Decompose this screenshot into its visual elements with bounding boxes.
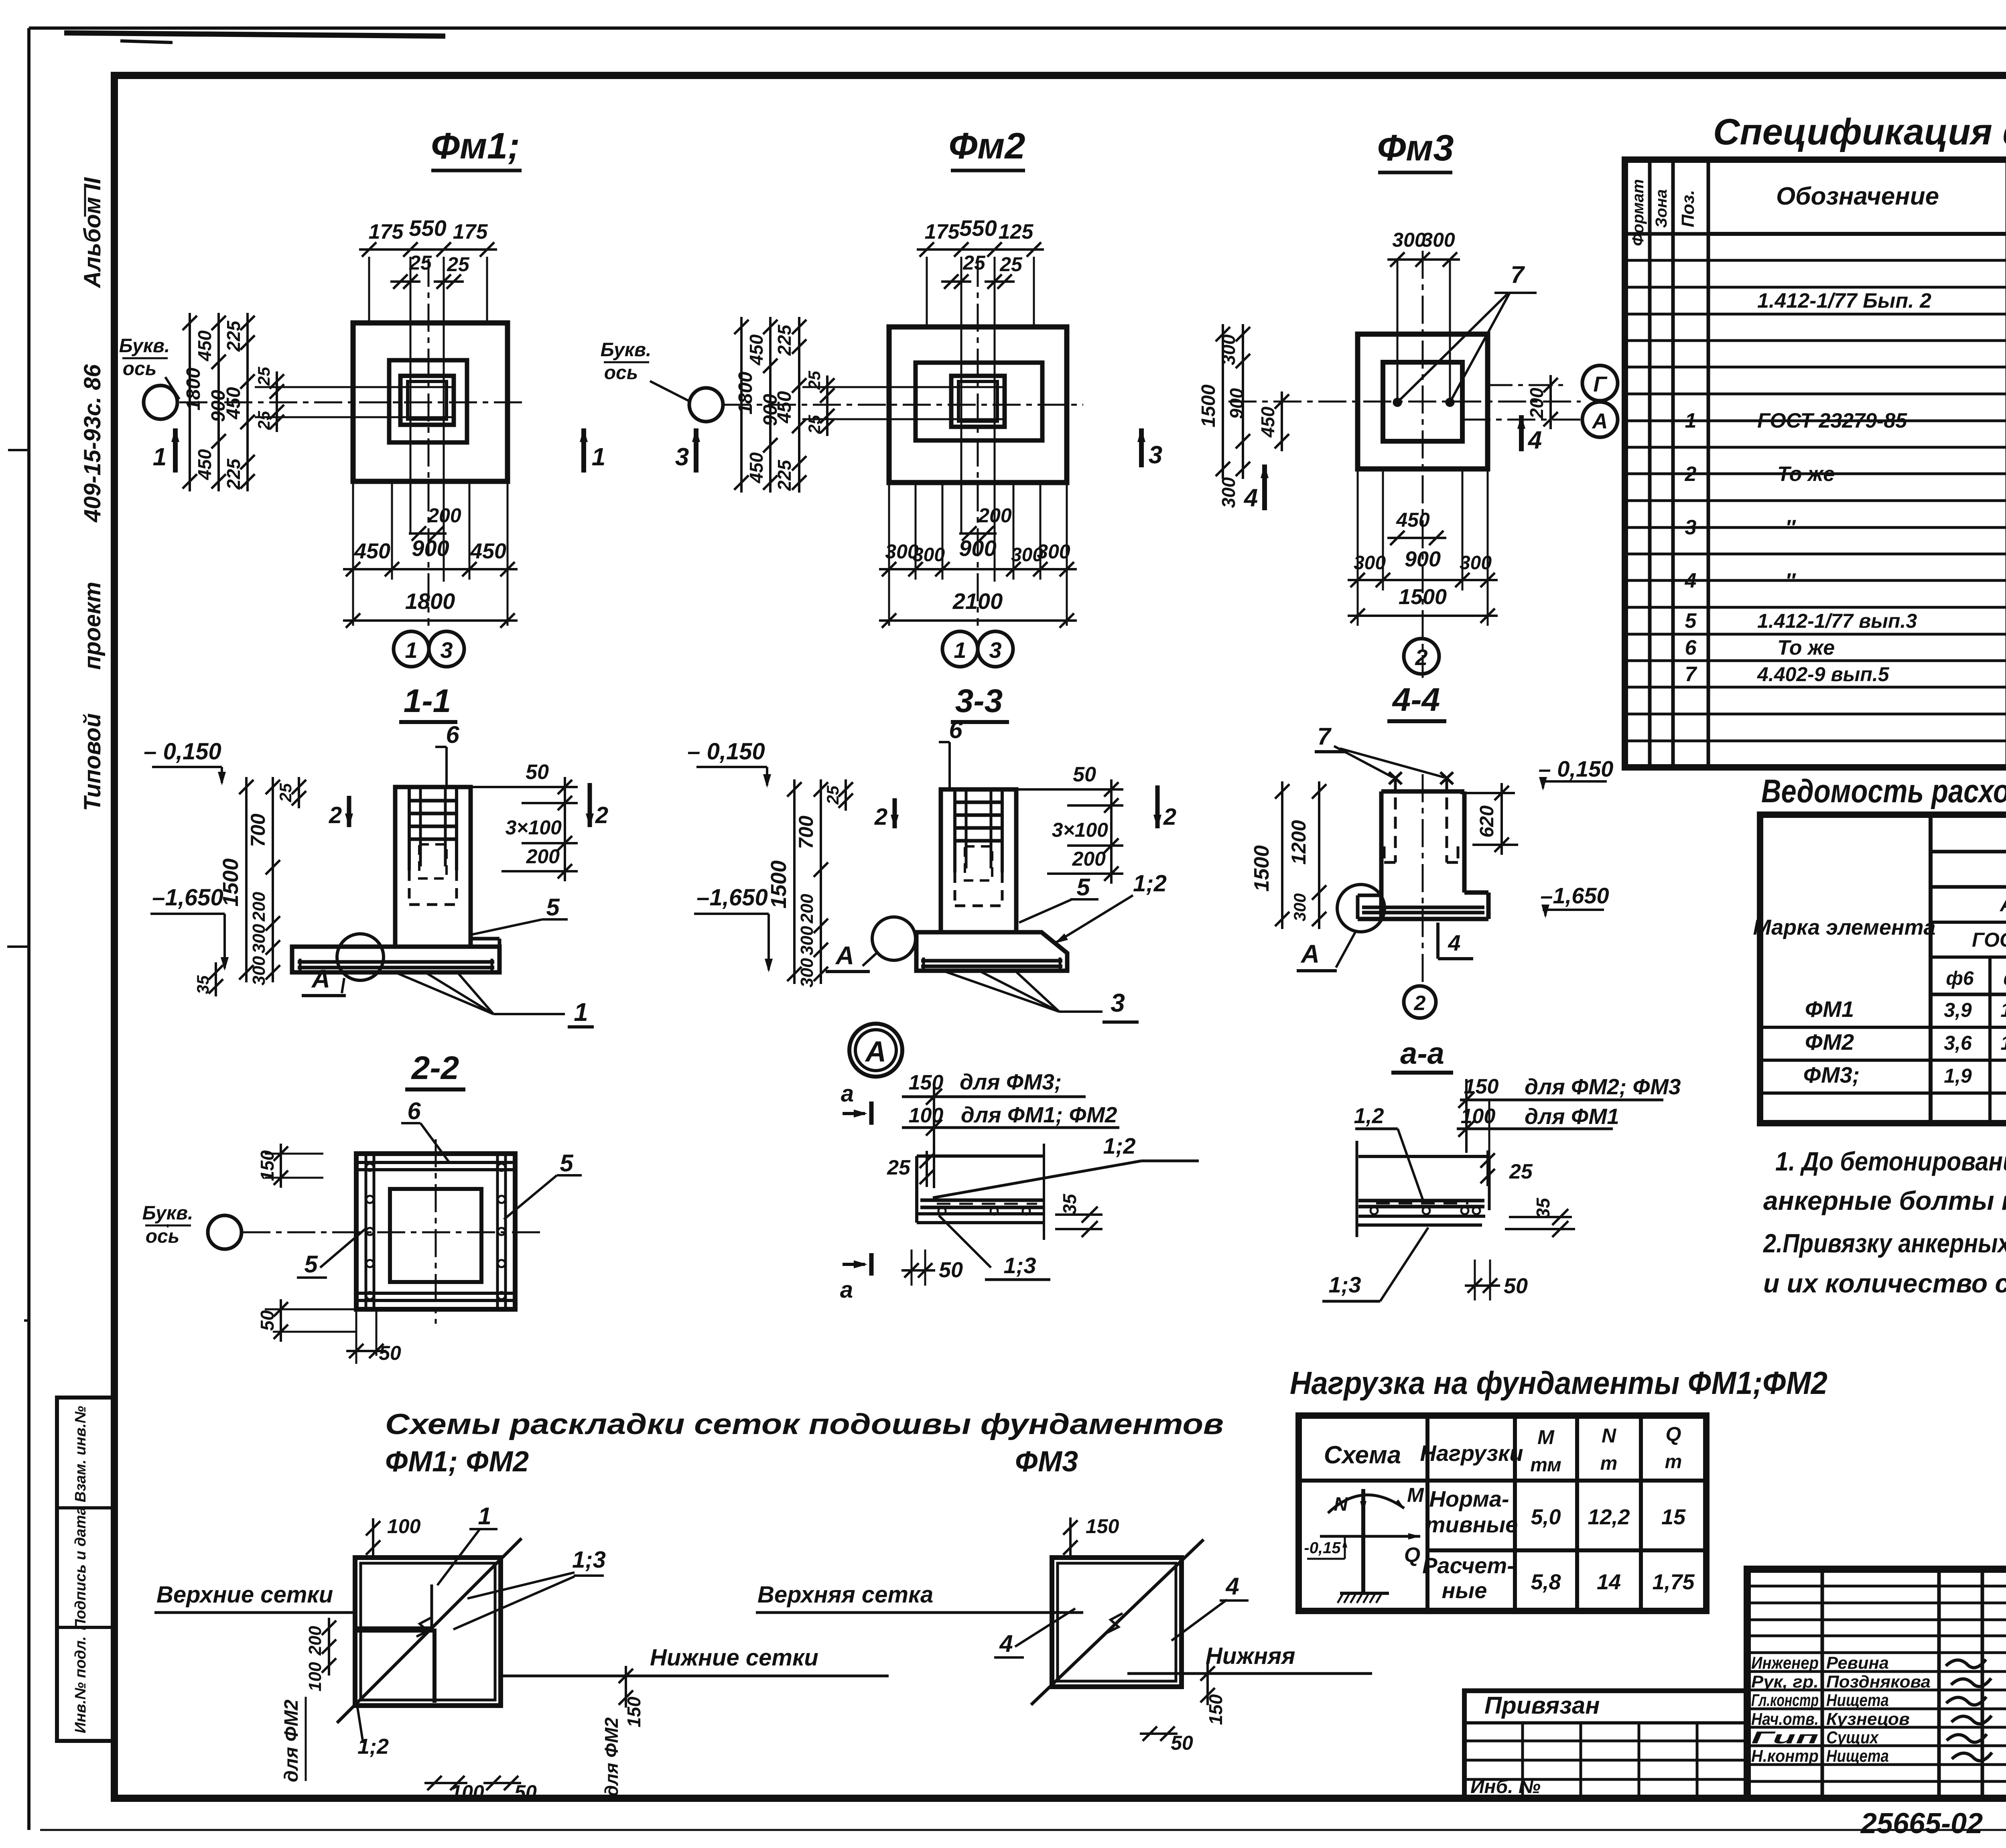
mesh scheme FM1-FM2 dim 100 top	[372, 1518, 374, 1558]
svg-text:1,2: 1,2	[1354, 1104, 1384, 1128]
svg-text:300: 300	[913, 544, 945, 566]
svg-text:150: 150	[909, 1071, 944, 1094]
svg-text:Сущих: Сущих	[1826, 1728, 1879, 1747]
plan FM3 left dim chain 1500	[1222, 324, 1224, 479]
svg-text:150: 150	[1086, 1515, 1119, 1538]
plan FM3 anchor bolts	[1394, 399, 1401, 406]
mesh scheme FM1-FM2 diagonal break line	[337, 1538, 522, 1723]
section 3-3 glass walls	[953, 789, 956, 872]
svg-text:15,1: 15,1	[2000, 1032, 2006, 1054]
plan FM2 bottom dim 200	[959, 532, 997, 535]
svg-text:450: 450	[746, 334, 767, 365]
plan FM2 top dims 25 25	[941, 280, 971, 283]
svg-text:25: 25	[999, 253, 1023, 276]
svg-text:Фм1;: Фм1;	[431, 126, 520, 166]
svg-text:200: 200	[427, 504, 461, 527]
load table column lines	[1425, 1416, 1429, 1611]
svg-text:для ФМ3;: для ФМ3;	[960, 1069, 1062, 1094]
specification table row lines	[1625, 259, 2006, 262]
plan FM2 section mark 1	[581, 428, 586, 473]
svg-text:300: 300	[1037, 540, 1070, 563]
section 3-3 right dims 50 3x100 200	[1018, 788, 1123, 791]
svg-text:Подпись и дата: Подпись и дата	[72, 1507, 89, 1630]
svg-text:25: 25	[254, 367, 273, 386]
svg-text:Зона: Зона	[1653, 189, 1670, 228]
plan FM2 bottom overall dim 2100	[879, 619, 1077, 622]
load table row lines	[1427, 1479, 1706, 1483]
svg-text:ГОСТ 23279-85: ГОСТ 23279-85	[1757, 409, 1907, 432]
svg-text:450: 450	[223, 387, 244, 420]
svg-text:6: 6	[446, 721, 459, 748]
svg-text:50: 50	[514, 1781, 537, 1803]
section 2-2 outer square	[356, 1154, 515, 1309]
steel table frame	[1760, 815, 2006, 1123]
left margin column labels	[57, 1398, 114, 1741]
mesh scheme FM1-FM2 bottom dims 100 50	[424, 1782, 467, 1784]
section 1-1 node A leader and label	[342, 978, 344, 993]
svg-text:–1,650: –1,650	[152, 884, 223, 911]
svg-text:Ведомость расхода стали на арм: Ведомость расхода стали на арматурные из…	[1761, 773, 2006, 809]
section 1-1 leader 1	[395, 972, 493, 1014]
svg-text:200: 200	[978, 504, 1012, 527]
plan FM2 centerlines	[723, 404, 1083, 406]
title block left columns	[1821, 1569, 1824, 1798]
svg-text:25: 25	[805, 415, 824, 434]
plan FM2 left dim chain 225 450 225	[798, 317, 800, 493]
svg-text:2.Привязку анкерных болтов: 2.Привязку анкерных болтов на фундамента…	[1762, 1228, 2006, 1258]
steel table header Изделия арматурные	[1929, 815, 1933, 1123]
section 2-2 centerlines	[242, 1231, 546, 1233]
plan FM1 top dims 25 25	[390, 280, 420, 283]
section 3-3 left dim 1500	[793, 779, 796, 984]
svg-text:Инженер: Инженер	[1751, 1653, 1819, 1673]
steel table header GOST rows	[1931, 955, 2006, 959]
plan FM1 column glass outer	[400, 376, 454, 425]
svg-text:Марка элемента: Марка элемента	[1753, 915, 1935, 939]
svg-text:1,9: 1,9	[1944, 1065, 1972, 1087]
section 4-4 centerline and axis circle 2	[1422, 774, 1424, 984]
svg-text:тивные: тивные	[1425, 1512, 1518, 1537]
svg-text:225: 225	[774, 459, 795, 491]
svg-text:Нижняя: Нижняя	[1206, 1643, 1295, 1669]
svg-text:25: 25	[887, 1156, 911, 1179]
svg-text:900: 900	[1405, 547, 1441, 571]
svg-text:2: 2	[874, 804, 887, 830]
load table frame	[1299, 1416, 1706, 1611]
plan FM2 bottom dim chain 300 300 900 300 300	[879, 568, 1077, 570]
plan FM2 top dims 175 550 125	[917, 248, 1044, 251]
svg-text:450: 450	[194, 330, 215, 361]
svg-text:5: 5	[560, 1150, 574, 1177]
svg-text:175: 175	[369, 220, 404, 243]
plan FM1 outer contour	[353, 323, 508, 481]
plan FM3 left dim 450	[1281, 392, 1283, 451]
section 1-1 footing outline	[292, 947, 499, 972]
plan FM3 top dims 300 300	[1387, 258, 1460, 261]
svg-text:50: 50	[1073, 763, 1096, 786]
plan FM1 left dim chain 1800	[189, 313, 191, 491]
svg-text:700: 700	[795, 815, 817, 849]
svg-text:ось: ось	[604, 362, 638, 383]
svg-text:1800: 1800	[183, 367, 204, 410]
svg-text:ФМ1; ФМ2: ФМ1; ФМ2	[385, 1446, 529, 1478]
svg-text:450: 450	[354, 539, 390, 563]
svg-text:–1,650: –1,650	[696, 884, 767, 911]
plan FM1 left small dims 25	[276, 371, 278, 432]
svg-text:25: 25	[1509, 1160, 1533, 1183]
svg-text:7: 7	[1317, 723, 1332, 750]
plan FM1 anchor bolt axis lines horizontal	[255, 386, 454, 388]
svg-text:150: 150	[623, 1696, 644, 1727]
svg-text:А: А	[1592, 409, 1608, 433]
node A slope line 1:2	[933, 1161, 1141, 1198]
svg-text:620: 620	[1476, 805, 1498, 838]
svg-text:Поз.: Поз.	[1678, 190, 1698, 227]
left margin register dashes	[8, 449, 28, 451]
svg-text:1;3: 1;3	[572, 1547, 606, 1573]
svg-text:Q: Q	[1666, 1423, 1681, 1445]
svg-text:т: т	[1665, 1451, 1682, 1473]
node A bottom rebar	[920, 1199, 1044, 1202]
svg-text:Схема: Схема	[1324, 1441, 1401, 1469]
section 4-4 column outline	[1381, 789, 1464, 794]
svg-text:6: 6	[1685, 636, 1697, 659]
svg-text:50: 50	[379, 1342, 401, 1364]
svg-text:1.412-1/77 вып.3: 1.412-1/77 вып.3	[1757, 610, 1917, 632]
section 4-4 dim 620 right	[1460, 792, 1515, 794]
svg-text:300: 300	[1421, 229, 1455, 251]
scan smudge top-left	[64, 33, 445, 36]
node A dim 50 bottom	[911, 1250, 913, 1286]
node A leader 1:3	[939, 1215, 991, 1268]
mesh scheme FM1-FM2 right dims 150 для ФМ2	[625, 1666, 627, 1708]
steel table header diameters	[1988, 957, 1992, 1123]
section 3-3 cut flag 2 right	[1155, 785, 1160, 828]
svg-text:1500: 1500	[219, 858, 243, 907]
svg-text:900: 900	[959, 536, 996, 561]
svg-text:1;3: 1;3	[1329, 1272, 1361, 1297]
svg-text:анкерные болты по узлам 1÷: анкерные болты по узлам 1÷7	[1763, 1186, 2006, 1215]
svg-text:Нижние сетки: Нижние сетки	[650, 1645, 818, 1671]
section 3-3 stirrups	[955, 801, 1002, 804]
svg-text:35: 35	[193, 975, 212, 994]
svg-text:450: 450	[470, 539, 506, 563]
svg-text:Типовой: Типовой	[79, 713, 106, 811]
svg-text:300: 300	[797, 926, 817, 955]
svg-text:ось: ось	[146, 1226, 180, 1247]
svg-text:2100: 2100	[952, 588, 1003, 614]
svg-text:для ФМ2: для ФМ2	[281, 1700, 302, 1782]
svg-text:200: 200	[526, 845, 560, 868]
svg-text:25: 25	[254, 411, 273, 430]
plan FM1 left dim chain 225 450 225	[246, 313, 249, 491]
svg-text:ные: ные	[1442, 1578, 1487, 1603]
title block staff rows	[1747, 1651, 2006, 1654]
svg-text:1: 1	[153, 443, 166, 471]
svg-text:25: 25	[276, 783, 295, 802]
plan FM3 left dim chain 300 900 300	[1242, 324, 1244, 479]
svg-text:3: 3	[1111, 988, 1125, 1017]
svg-text:Схемы раскладки сеток п: Схемы раскладки сеток подошвы фундаменто…	[385, 1408, 1224, 1440]
section 3-3 cut flag 2 left	[893, 798, 897, 828]
svg-text:А: А	[311, 964, 330, 993]
section 3-3 anchor template dashed	[965, 846, 992, 880]
plan FM3 bottom dim chain 300 900 300	[1348, 579, 1498, 581]
svg-text:5,8: 5,8	[1531, 1570, 1561, 1594]
svg-text:3: 3	[989, 637, 1001, 663]
svg-text:100: 100	[451, 1781, 484, 1803]
svg-text:300: 300	[249, 956, 269, 986]
detail a-a dim 50 bottom	[1474, 1260, 1476, 1300]
svg-text:6: 6	[407, 1097, 421, 1124]
svg-text:1800: 1800	[735, 371, 756, 414]
node A dim chain vertical	[933, 1083, 935, 1188]
section 2-2 dim 50 bottom	[355, 1309, 357, 1364]
svg-text:5: 5	[304, 1251, 318, 1278]
svg-text:тм: тм	[1530, 1454, 1561, 1476]
section 2-2 dim 150 left	[265, 1153, 323, 1155]
plan FM1 axis circles 1 and 3	[394, 631, 429, 667]
mesh scheme FM3 outer square	[1052, 1558, 1182, 1687]
svg-text:225: 225	[774, 324, 795, 356]
section 4-4 bolt top crosses	[1389, 772, 1402, 784]
svg-text:Инб. №: Инб. №	[1470, 1776, 1541, 1797]
detail a-a dim 25 right	[1486, 1150, 1489, 1186]
mesh scheme FM1-FM2 outer square	[355, 1558, 501, 1706]
plan FM3 bottom dim 450	[1387, 537, 1446, 539]
svg-text:50: 50	[1504, 1274, 1528, 1298]
svg-text:175: 175	[453, 220, 488, 243]
plan FM3 section mark 4 left	[1262, 465, 1267, 510]
mesh scheme FM1-FM2 left dims 200 100	[328, 1618, 330, 1676]
svg-text:-0,15: -0,15	[1304, 1539, 1341, 1557]
svg-text:2: 2	[1163, 804, 1176, 830]
steel table data rows	[1760, 1026, 2006, 1029]
mesh scheme FM1-FM2 internal mesh edges	[432, 1629, 437, 1703]
svg-text:N: N	[1334, 1494, 1348, 1515]
svg-text:и их количество см. лист: и их количество см. листы 3 ;4	[1763, 1268, 2006, 1298]
svg-text:Нагрузки: Нагрузки	[1420, 1440, 1523, 1466]
svg-text:100: 100	[909, 1104, 944, 1127]
plan FM2 middle step contour	[916, 363, 1042, 440]
plan FM1 bottom overall dim 1800	[343, 619, 518, 622]
svg-text:5: 5	[1685, 609, 1697, 633]
svg-text:4-4: 4-4	[1392, 682, 1440, 718]
svg-text:для ФМ1; ФМ2: для ФМ1; ФМ2	[961, 1102, 1117, 1127]
svg-text:50: 50	[257, 1310, 278, 1331]
svg-text:Нагрузка на фундаменты ФМ1;ФМ2: Нагрузка на фундаменты ФМ1;ФМ2	[1290, 1365, 1827, 1401]
svg-text:1: 1	[1685, 409, 1697, 432]
svg-text:То же: То же	[1777, 463, 1835, 486]
section 2-2 horizontal rebar pairs item 6	[358, 1161, 514, 1164]
svg-text:для ФМ2; ФМ3: для ФМ2; ФМ3	[1525, 1074, 1681, 1099]
detail a-a dim chain vertical	[1465, 1079, 1468, 1153]
section 1-1 left small dims 25 35	[298, 777, 300, 808]
svg-text:25: 25	[823, 785, 842, 805]
svg-text:ФМ3: ФМ3	[1015, 1446, 1078, 1478]
svg-text:50: 50	[526, 761, 549, 784]
svg-text:700: 700	[247, 813, 269, 847]
svg-text:450: 450	[1257, 406, 1278, 438]
svg-text:225: 225	[223, 320, 244, 352]
svg-text:300: 300	[1392, 229, 1426, 251]
svg-text:450: 450	[194, 449, 215, 480]
svg-text:– 0,150: – 0,150	[144, 738, 221, 765]
svg-text:300: 300	[249, 924, 269, 953]
plan FM3 inner contour	[1383, 362, 1462, 441]
svg-text:300: 300	[1354, 552, 1386, 574]
mesh scheme FM3 diagonal break line	[1031, 1540, 1204, 1705]
plan FM1 letter axis circle	[144, 385, 177, 419]
svg-text:Г: Г	[1593, 372, 1608, 396]
svg-text:3×100: 3×100	[506, 816, 562, 839]
plan FM2 left dim chain 1800	[740, 317, 743, 493]
svg-text:1200: 1200	[1287, 820, 1310, 864]
svg-text:Привязан: Привязан	[1484, 1692, 1600, 1719]
svg-text:450: 450	[746, 452, 767, 483]
svg-text:300: 300	[1218, 477, 1239, 508]
svg-text:1800: 1800	[405, 588, 455, 614]
svg-text:ф6: ф6	[1946, 968, 1974, 989]
svg-text:300: 300	[1460, 552, 1492, 574]
svg-text:т: т	[1600, 1453, 1618, 1474]
svg-text:225: 225	[223, 458, 244, 490]
svg-text:ось: ось	[123, 358, 157, 379]
svg-text:4: 4	[1527, 426, 1542, 454]
section 4-4 left dim chain 1200 300	[1318, 781, 1320, 929]
svg-text:25: 25	[805, 371, 824, 390]
svg-text:То же: То же	[1777, 636, 1835, 659]
svg-text:для ФМ1: для ФМ1	[1525, 1104, 1619, 1129]
svg-text:– 0,150: – 0,150	[1539, 756, 1614, 781]
detail a-a dim 35	[1509, 1216, 1572, 1218]
svg-text:4: 4	[1685, 569, 1697, 592]
svg-text:3-3: 3-3	[955, 683, 1003, 719]
mesh scheme FM3 bottom dim 50	[1140, 1732, 1178, 1735]
plan FM2 axis circles 1 and 3	[942, 631, 978, 667]
svg-text:Ревина: Ревина	[1826, 1653, 1889, 1673]
section 4-4 cut flag 4 bottom	[1436, 923, 1440, 959]
section 1-1 anchor template dashed	[419, 844, 447, 878]
section 1-1 right dims 50 3x100 200	[473, 786, 578, 788]
svg-text:–1,650: –1,650	[1540, 883, 1609, 908]
svg-text:1: 1	[592, 443, 605, 471]
plan FM2 anchor bolt axes	[960, 257, 962, 534]
section 1-1 left dim 1500	[245, 777, 248, 982]
svg-text:А: А	[1300, 939, 1320, 968]
svg-text:ФМ2: ФМ2	[1805, 1029, 1854, 1055]
svg-text:7: 7	[1511, 261, 1525, 288]
svg-text:450: 450	[1396, 509, 1430, 531]
svg-text:150: 150	[1205, 1694, 1226, 1725]
svg-text:Расчет-: Расчет-	[1422, 1553, 1515, 1578]
svg-text:1500: 1500	[1198, 384, 1219, 427]
svg-text:6: 6	[949, 716, 962, 743]
svg-text:2: 2	[1415, 645, 1427, 670]
svg-text:4: 4	[1225, 1573, 1239, 1600]
svg-text:Верхняя сетка: Верхняя сетка	[757, 1582, 933, 1608]
plan FM1 anchor bolt axis lines vertical	[410, 257, 412, 534]
svg-text:″: ″	[1785, 569, 1796, 592]
steel table header Арматура класса	[1931, 885, 2006, 889]
svg-text:ФМ3;: ФМ3;	[1803, 1062, 1860, 1087]
svg-text:Формат: Формат	[1629, 179, 1647, 246]
section 3-3 bottom rebar mesh 3	[921, 959, 1062, 963]
svg-text:Букв.: Букв.	[601, 339, 652, 361]
plan FM3 section mark 4 right	[1519, 415, 1524, 451]
svg-text:А: А	[835, 941, 854, 970]
svg-text:125: 125	[999, 220, 1034, 243]
svg-text:″: ″	[1785, 516, 1796, 539]
svg-text:1: 1	[478, 1503, 491, 1530]
svg-text:1-1: 1-1	[404, 683, 451, 719]
svg-text:1500: 1500	[1399, 585, 1447, 609]
section 4-4 node A leader and label	[1336, 932, 1355, 968]
plan FM1 bottom dim 200	[409, 532, 447, 535]
section 4-4 left dim 1500	[1281, 781, 1283, 929]
section 2-2 vertical rebar pairs item 5	[365, 1155, 367, 1308]
section 4-4 anchor bolts dashed	[1394, 778, 1397, 862]
svg-text:Взам. инв.№: Взам. инв.№	[72, 1406, 89, 1502]
svg-text:4.402-9 вып.5: 4.402-9 вып.5	[1757, 663, 1890, 686]
plan FM2 left dim chain 450 900 450	[769, 317, 772, 493]
section 4-4 node A circle	[1337, 884, 1385, 932]
svg-text:15: 15	[1661, 1505, 1686, 1529]
svg-text:Обозначение: Обозначение	[1776, 183, 1939, 210]
svg-text:7: 7	[1685, 663, 1697, 686]
mesh scheme FM3 right dim 150	[1206, 1663, 1209, 1705]
svg-text:а: а	[841, 1081, 854, 1107]
svg-text:ФМ1: ФМ1	[1805, 996, 1854, 1022]
svg-text:35: 35	[1533, 1197, 1553, 1219]
svg-text:150: 150	[257, 1150, 278, 1181]
plan FM2 section mark 3 right	[1139, 428, 1144, 467]
plan FM2 left small dims 25	[826, 375, 828, 436]
section 1-1 left dim chain 700 300 300	[272, 777, 274, 982]
svg-text:2: 2	[1414, 992, 1426, 1015]
svg-text:300: 300	[1218, 334, 1239, 365]
svg-text:175: 175	[925, 220, 960, 243]
svg-text:5: 5	[546, 894, 560, 921]
svg-text:Верхние сетки: Верхние сетки	[156, 1582, 333, 1608]
svg-text:Нищета: Нищета	[1826, 1747, 1889, 1766]
plan FM1 section mark 1 left	[173, 428, 178, 473]
svg-text:4: 4	[1448, 930, 1460, 955]
svg-text:Букв.: Букв.	[142, 1203, 193, 1224]
svg-text:900: 900	[1226, 388, 1247, 419]
svg-text:А: А	[865, 1036, 886, 1068]
plan FM3 axis circles Г and А	[1582, 365, 1618, 401]
specification table header	[1708, 232, 2006, 236]
svg-text:Норма-: Норма-	[1429, 1486, 1509, 1511]
node A detail title circle	[849, 1024, 902, 1077]
svg-text:35: 35	[1059, 1193, 1080, 1215]
specification table column lines	[1648, 160, 1652, 767]
svg-text:450: 450	[774, 391, 795, 424]
svg-text:1: 1	[405, 637, 417, 663]
svg-text:12,2: 12,2	[1588, 1505, 1630, 1529]
svg-text:1500: 1500	[767, 860, 791, 909]
svg-text:2: 2	[595, 802, 608, 828]
section 3-3 left small dim 25	[845, 779, 847, 811]
svg-text:409-15-93c. 86: 409-15-93c. 86	[79, 364, 106, 523]
svg-text:Фм2: Фм2	[948, 126, 1025, 166]
svg-text:N: N	[1602, 1424, 1616, 1447]
svg-text:– 0,150: – 0,150	[687, 738, 765, 765]
plan FM3 right dim 200	[1488, 384, 1567, 386]
section 1-1 cut flag 2 left	[347, 796, 351, 827]
section 3-3 column outline	[941, 789, 1016, 932]
